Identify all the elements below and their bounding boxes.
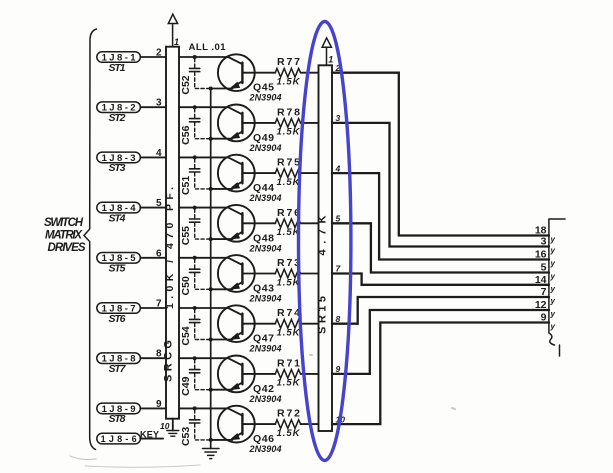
svg-text:SWITCH: SWITCH xyxy=(44,217,84,229)
svg-text:7: 7 xyxy=(156,299,162,310)
wire 1J8-4 to SRC6 xyxy=(140,207,166,209)
svg-text:5: 5 xyxy=(541,262,547,274)
wire SR15 pin 3 to edge connector xyxy=(332,123,549,247)
scan smudges xyxy=(70,355,455,467)
svg-text:DRIVES: DRIVES xyxy=(48,242,86,254)
resistor R75 xyxy=(275,169,300,178)
svg-text:y: y xyxy=(550,235,556,244)
wire SR15 pin 4 to edge connector xyxy=(332,173,549,259)
wire R78 to SR15 xyxy=(301,122,319,124)
svg-text:ALL .01: ALL .01 xyxy=(189,42,227,53)
junction dot xyxy=(193,206,197,210)
junction dot xyxy=(193,306,197,310)
svg-text:3: 3 xyxy=(541,236,547,248)
svg-text:8: 8 xyxy=(336,314,341,324)
connector pad 1J8-4 xyxy=(97,202,141,213)
svg-text:4.7K: 4.7K xyxy=(317,215,329,255)
connector pad 1J8-2 xyxy=(97,102,141,113)
svg-text:y: y xyxy=(550,246,556,255)
capacitor C51 xyxy=(194,159,196,168)
svg-text:C50: C50 xyxy=(180,276,192,295)
transistor Q42 xyxy=(218,356,255,393)
transistor Q46 xyxy=(218,406,255,443)
junction dot xyxy=(193,356,197,360)
wire SRC6 to Q47 collector xyxy=(179,307,228,309)
power arrow (SRC6 pin 1) xyxy=(168,14,177,47)
svg-text:R78: R78 xyxy=(277,106,300,118)
resistor network SR15 body xyxy=(319,65,333,431)
svg-text:1.0K / 470 PF.: 1.0K / 470 PF. xyxy=(164,187,176,309)
wire SR15 pin 5 to edge connector xyxy=(332,223,549,272)
svg-text:C56: C56 xyxy=(180,125,192,144)
svg-text:2N3904: 2N3904 xyxy=(249,243,282,253)
svg-text:2N3904: 2N3904 xyxy=(249,344,282,354)
svg-text:C55: C55 xyxy=(180,226,192,245)
wire 1J8-5 to SRC6 xyxy=(140,257,166,259)
junction dot (emitter/cap to bus) xyxy=(209,237,213,241)
wire emitter to bus xyxy=(211,138,233,140)
svg-text:y: y xyxy=(550,272,556,281)
svg-text:2N3904: 2N3904 xyxy=(249,394,282,404)
svg-text:5: 5 xyxy=(156,198,162,209)
connector pad 1J8-3 xyxy=(97,152,141,163)
resistor R78 xyxy=(275,119,300,128)
junction dot (emitter/cap to bus) xyxy=(209,287,213,291)
wire emitter to bus xyxy=(211,339,233,341)
wire SR15 pin 9 to edge connector xyxy=(332,310,549,374)
wire R72 to SR15 xyxy=(301,423,319,425)
wire emitter to bus xyxy=(211,389,233,391)
svg-text:y: y xyxy=(550,259,556,268)
svg-text:R71: R71 xyxy=(277,357,300,369)
capacitor C53 xyxy=(194,410,196,419)
resistor R72 xyxy=(275,420,300,429)
svg-text:1.5K: 1.5K xyxy=(277,77,301,88)
connector pad 1J8-6 xyxy=(97,433,141,444)
svg-text:y: y xyxy=(550,310,556,319)
svg-text:1.5K: 1.5K xyxy=(277,378,301,389)
wire R74 to SR15 xyxy=(301,323,319,325)
wire SRC6 to Q49 collector xyxy=(179,106,228,108)
power arrow (SR15 pin 1) xyxy=(322,38,331,65)
svg-text:14: 14 xyxy=(535,274,547,286)
svg-text:4: 4 xyxy=(335,163,341,173)
capacitor C55 xyxy=(194,209,196,218)
wire 1J8-1 to SRC6 xyxy=(140,56,166,58)
svg-text:R74: R74 xyxy=(277,307,300,319)
svg-text:5: 5 xyxy=(336,214,341,224)
wire SRC6 to Q44 collector xyxy=(179,156,228,158)
connector pad 1J8-1 xyxy=(97,52,141,63)
wire SRC6 to Q43 collector xyxy=(179,257,228,259)
svg-text:10: 10 xyxy=(160,421,170,431)
svg-text:ST4: ST4 xyxy=(109,212,126,224)
junction dot xyxy=(193,55,197,59)
SRC6 pin 10 lead xyxy=(172,419,174,431)
svg-text:C49: C49 xyxy=(180,376,192,395)
wire 1J8-7 to SRC6 xyxy=(140,307,166,309)
svg-text:9: 9 xyxy=(336,364,341,374)
transistor Q47 xyxy=(218,305,255,342)
svg-text:C54: C54 xyxy=(180,326,192,345)
svg-text:R77: R77 xyxy=(277,56,300,68)
svg-text:y: y xyxy=(550,284,556,293)
svg-text:2N3904: 2N3904 xyxy=(249,93,282,103)
junction dot xyxy=(193,256,197,260)
transistor Q43 xyxy=(218,255,255,292)
svg-text:3: 3 xyxy=(336,113,341,123)
connector pad 1J8-7 xyxy=(97,303,141,314)
resistor R76 xyxy=(275,219,300,228)
connector pad 1J8-9 xyxy=(97,403,141,414)
svg-text:ST1: ST1 xyxy=(109,62,126,74)
resistor network SRC6 body xyxy=(166,47,179,419)
svg-text:ST8: ST8 xyxy=(109,413,126,425)
svg-text:1.5K: 1.5K xyxy=(277,328,301,339)
wire R75 to SR15 xyxy=(301,172,319,174)
svg-text:1.5K: 1.5K xyxy=(277,177,301,188)
svg-text:7: 7 xyxy=(541,286,547,298)
switch matrix drives label xyxy=(44,217,86,254)
svg-text:R73: R73 xyxy=(277,257,300,269)
wire R76 to SR15 xyxy=(301,222,319,224)
svg-text:R75: R75 xyxy=(277,157,300,169)
wire R71 to SR15 xyxy=(301,373,319,375)
svg-text:ST3: ST3 xyxy=(109,162,126,174)
svg-text:C53: C53 xyxy=(180,427,192,446)
resistor R77 xyxy=(275,68,300,77)
ground symbol (bus) xyxy=(203,449,220,459)
svg-text:4: 4 xyxy=(156,148,162,159)
svg-text:6: 6 xyxy=(156,248,162,259)
wire SR15 pin 7 to edge connector xyxy=(332,274,549,285)
svg-text:2N3904: 2N3904 xyxy=(249,193,282,203)
resistor R71 xyxy=(275,370,300,379)
svg-text:9: 9 xyxy=(156,399,162,410)
svg-text:8: 8 xyxy=(156,349,162,360)
junction dot xyxy=(193,406,197,410)
connector pad 1J8-5 xyxy=(97,253,141,264)
wire SRC6 to Q48 collector xyxy=(179,207,228,209)
svg-text:2: 2 xyxy=(156,48,162,59)
wire 1J8-2 to SRC6 xyxy=(140,106,166,108)
resistor R73 xyxy=(275,269,300,278)
svg-text:2N3904: 2N3904 xyxy=(249,444,282,454)
svg-text:1.5K: 1.5K xyxy=(277,127,301,138)
highlight ellipse around SR15 xyxy=(299,22,351,461)
transistor Q44 xyxy=(218,155,255,192)
resistor R74 xyxy=(275,319,300,328)
wire emitter to bus xyxy=(211,288,233,290)
junction dot (emitter/cap to bus) xyxy=(209,438,213,442)
capacitor C54 xyxy=(194,310,196,319)
capacitor C52 xyxy=(194,59,196,68)
junction dot xyxy=(193,105,197,109)
edge connector boundary xyxy=(549,219,565,356)
wire 1J8-3 to SRC6 xyxy=(140,156,166,158)
wire SR15 pin 8 to edge connector xyxy=(332,297,549,324)
svg-text:2N3904: 2N3904 xyxy=(249,294,282,304)
wire emitter to bus xyxy=(211,188,233,190)
brace xyxy=(84,29,97,450)
svg-text:9: 9 xyxy=(541,312,547,324)
wire emitter to bus xyxy=(211,439,233,441)
junction dot (emitter/cap to bus) xyxy=(209,388,213,392)
svg-text:R76: R76 xyxy=(277,207,300,219)
wire SR15 pin 2 to edge connector xyxy=(332,73,549,236)
wire SR15 pin 10 to edge connector xyxy=(332,323,549,425)
svg-text:1.5K: 1.5K xyxy=(277,277,301,288)
wire 1J8-6 KEY xyxy=(140,438,163,440)
svg-text:R72: R72 xyxy=(277,408,300,420)
junction dot xyxy=(193,155,197,159)
capacitor C49 xyxy=(194,360,196,369)
wire R73 to SR15 xyxy=(301,273,319,275)
wire emitter to bus xyxy=(211,238,233,240)
svg-text:3: 3 xyxy=(156,98,162,109)
ground bus wire xyxy=(210,89,212,449)
wire SRC6 to Q45 collector xyxy=(179,56,228,58)
ground at SRC6 pin 10 xyxy=(167,431,179,437)
wire 1J8-9 to SRC6 xyxy=(140,407,166,409)
capacitor C56 xyxy=(194,109,196,118)
svg-text:ST2: ST2 xyxy=(109,112,126,124)
svg-text:C52: C52 xyxy=(180,75,192,94)
svg-text:C51: C51 xyxy=(180,176,192,195)
svg-text:ST6: ST6 xyxy=(109,313,126,325)
transistor Q48 xyxy=(218,205,255,242)
junction dot (emitter/cap to bus) xyxy=(209,187,213,191)
junction dot (emitter/cap to bus) xyxy=(209,87,213,91)
svg-text:2N3904: 2N3904 xyxy=(249,143,282,153)
svg-text:16: 16 xyxy=(535,249,547,261)
wire SRC6 to Q46 collector xyxy=(179,407,228,409)
svg-text:1: 1 xyxy=(174,37,179,47)
svg-text:MATRIX: MATRIX xyxy=(45,230,83,242)
junction dot (emitter/cap to bus) xyxy=(209,137,213,141)
wire R77 to SR15 xyxy=(301,72,319,74)
svg-text:y: y xyxy=(550,322,556,331)
svg-text:1.5K: 1.5K xyxy=(277,428,301,439)
transistor Q45 xyxy=(218,54,255,91)
connector pad 1J8-8 xyxy=(97,353,141,364)
svg-text:ST7: ST7 xyxy=(109,363,127,375)
wire emitter to bus xyxy=(211,88,233,90)
wire 1J8-8 to SRC6 xyxy=(140,357,166,359)
wire SRC6 to Q42 collector xyxy=(179,357,228,359)
svg-text:12: 12 xyxy=(535,299,547,311)
junction dot (emitter/cap to bus) xyxy=(209,338,213,342)
capacitor C50 xyxy=(194,259,196,268)
svg-text:ST5: ST5 xyxy=(109,263,126,275)
transistor Q49 xyxy=(218,105,255,142)
svg-text:1: 1 xyxy=(328,55,333,65)
svg-text:y: y xyxy=(550,297,556,306)
